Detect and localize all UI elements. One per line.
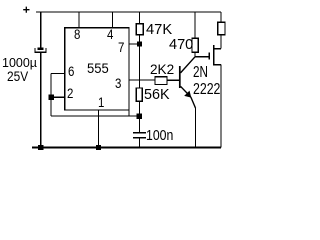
label pin3 bbox=[115, 76, 121, 90]
wire pin 3 output bbox=[129, 79, 155, 81]
resistor R5 bbox=[218, 22, 225, 34]
wire capacitor C1 top lead bbox=[40, 12, 42, 48]
capacitor C1 1000u polarized bbox=[38, 47, 44, 49]
wire Q2 source to ground bbox=[220, 65, 222, 148]
wire R2 bottom lead bbox=[139, 102, 141, 133]
transistor Q1 emitter diagonal bbox=[181, 86, 191, 97]
wire Q1 emitter bend bbox=[191, 97, 196, 108]
junction pin1-ground bbox=[96, 145, 101, 150]
junction pin7-47K bbox=[137, 41, 142, 46]
wire Q2 source tap bbox=[214, 64, 221, 66]
wire C2 bottom lead bbox=[139, 138, 141, 148]
plus terminal bbox=[23, 7, 29, 13]
label 555 bbox=[87, 61, 109, 75]
wire resistor R4 top lead bbox=[194, 12, 196, 38]
label pin8 bbox=[74, 27, 80, 41]
label 2K2 bbox=[150, 62, 174, 76]
wire resistor R1 top lead bbox=[139, 12, 141, 24]
wire bottom ground rail bbox=[32, 146, 221, 148]
capacitor C2 100n bbox=[133, 132, 146, 134]
wire pin 4 lead bbox=[112, 12, 114, 28]
resistor R4 470 bbox=[192, 38, 198, 52]
junction ground-cap bbox=[38, 145, 43, 150]
label 47K bbox=[146, 22, 172, 37]
label 1000u bbox=[2, 56, 37, 69]
wire resistor R5 bottom lead bbox=[220, 35, 222, 49]
transistor Q1 emitter arrowhead bbox=[184, 91, 191, 98]
resistor R1 47K bbox=[136, 24, 143, 35]
wire pin 8 lead bbox=[78, 12, 80, 28]
label pin2 bbox=[67, 86, 73, 100]
wire pin 7 stub bbox=[129, 43, 140, 45]
transistor Q2 gate bar bbox=[208, 53, 210, 60]
wire R1 to R2 column bbox=[139, 35, 141, 88]
wire R4 bottom lead bbox=[194, 52, 196, 56]
op-amp U1 555 box bbox=[65, 28, 129, 110]
resistor R3 2K2 bbox=[155, 77, 167, 85]
label 100n bbox=[146, 128, 173, 143]
wire capacitor C1 bottom lead bbox=[40, 52, 42, 147]
label 25V bbox=[7, 70, 28, 84]
transistor Q1 collector diagonal bbox=[181, 57, 196, 73]
resistor R2 56K bbox=[136, 88, 142, 101]
wire pin 6 stub bbox=[51, 73, 65, 75]
label 470 bbox=[169, 37, 193, 52]
junction pin2 bbox=[48, 95, 53, 100]
wire base node run bbox=[195, 56, 209, 58]
wire pin 2 stub bbox=[51, 96, 65, 98]
wire R3 right lead bbox=[167, 79, 180, 81]
label 56K bbox=[144, 88, 170, 103]
wire 6-2 link bbox=[50, 74, 52, 117]
wire pin 1 lead bbox=[98, 110, 100, 147]
wire threshold run bbox=[51, 115, 139, 117]
wire box corner jog bbox=[128, 110, 130, 116]
label pin7 bbox=[118, 40, 124, 54]
wire Q2 drain tap bbox=[214, 48, 221, 50]
junction node threshold bbox=[137, 113, 142, 118]
wire top supply rail bbox=[36, 11, 221, 13]
transistor Q1 base bar bbox=[179, 66, 181, 88]
label pin1 bbox=[98, 95, 104, 109]
transistor Q2 channel bar bbox=[213, 45, 215, 66]
label pin4 bbox=[107, 27, 113, 41]
label 2222 bbox=[193, 82, 220, 98]
wire Q1 emitter to ground bbox=[195, 108, 197, 147]
label 2N bbox=[193, 65, 208, 81]
wire resistor R5 top lead bbox=[220, 12, 222, 22]
label pin6 bbox=[68, 64, 74, 78]
